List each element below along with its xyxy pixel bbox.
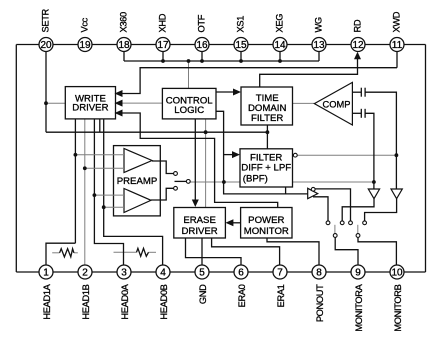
svg-text:X360: X360 xyxy=(119,12,129,32)
svg-text:(BPF): (BPF) xyxy=(243,174,268,185)
svg-text:COMP: COMP xyxy=(323,100,351,110)
svg-text:XHD: XHD xyxy=(158,13,168,32)
svg-text:10: 10 xyxy=(391,268,403,279)
svg-text:XS1: XS1 xyxy=(236,16,246,33)
svg-text:Vcc: Vcc xyxy=(80,17,90,32)
svg-text:16: 16 xyxy=(196,40,208,51)
svg-text:6: 6 xyxy=(238,268,244,279)
svg-text:18: 18 xyxy=(118,40,130,51)
svg-text:1: 1 xyxy=(43,268,49,279)
svg-text:8: 8 xyxy=(316,268,322,279)
svg-text:LOGIC: LOGIC xyxy=(174,105,204,116)
svg-text:OTF: OTF xyxy=(197,14,207,32)
svg-text:14: 14 xyxy=(274,40,286,51)
svg-text:15: 15 xyxy=(235,40,247,51)
svg-text:SETR: SETR xyxy=(41,8,51,32)
svg-text:HEAD1B: HEAD1B xyxy=(81,284,91,319)
svg-text:PREAMP: PREAMP xyxy=(117,176,158,187)
svg-text:PONOUT: PONOUT xyxy=(315,284,325,322)
svg-text:9: 9 xyxy=(355,268,361,279)
svg-text:11: 11 xyxy=(392,40,403,51)
svg-text:3: 3 xyxy=(121,268,127,279)
svg-text:XWD: XWD xyxy=(392,11,402,32)
svg-text:WG: WG xyxy=(314,17,324,32)
svg-text:FILTER: FILTER xyxy=(251,113,283,124)
svg-text:DRIVER: DRIVER xyxy=(72,102,108,113)
svg-text:HEAD1A: HEAD1A xyxy=(42,283,52,319)
svg-text:DRIVER: DRIVER xyxy=(181,226,217,237)
svg-text:ERASE: ERASE xyxy=(183,215,216,226)
svg-text:ERA1: ERA1 xyxy=(276,284,286,307)
svg-text:20: 20 xyxy=(40,40,52,51)
svg-text:MONITORA: MONITORA xyxy=(354,283,364,331)
svg-text:19: 19 xyxy=(79,40,91,51)
svg-text:MONITORB: MONITORB xyxy=(393,284,403,331)
svg-text:MONITOR: MONITOR xyxy=(244,226,289,237)
svg-text:5: 5 xyxy=(199,268,205,279)
svg-text:4: 4 xyxy=(160,268,166,279)
svg-text:12: 12 xyxy=(352,40,364,51)
svg-text:HEAD0A: HEAD0A xyxy=(120,283,130,319)
svg-text:2: 2 xyxy=(82,268,88,279)
svg-text:DIFF + LPF: DIFF + LPF xyxy=(241,163,291,174)
svg-text:17: 17 xyxy=(157,40,169,51)
svg-text:ERA0: ERA0 xyxy=(237,284,247,307)
svg-text:7: 7 xyxy=(277,268,283,279)
svg-text:RD: RD xyxy=(353,19,363,32)
svg-text:HEAD0B: HEAD0B xyxy=(159,284,169,319)
svg-text:13: 13 xyxy=(313,40,325,51)
svg-text:XEG: XEG xyxy=(275,14,285,33)
svg-text:POWER: POWER xyxy=(248,215,284,226)
svg-text:GND: GND xyxy=(198,284,208,304)
